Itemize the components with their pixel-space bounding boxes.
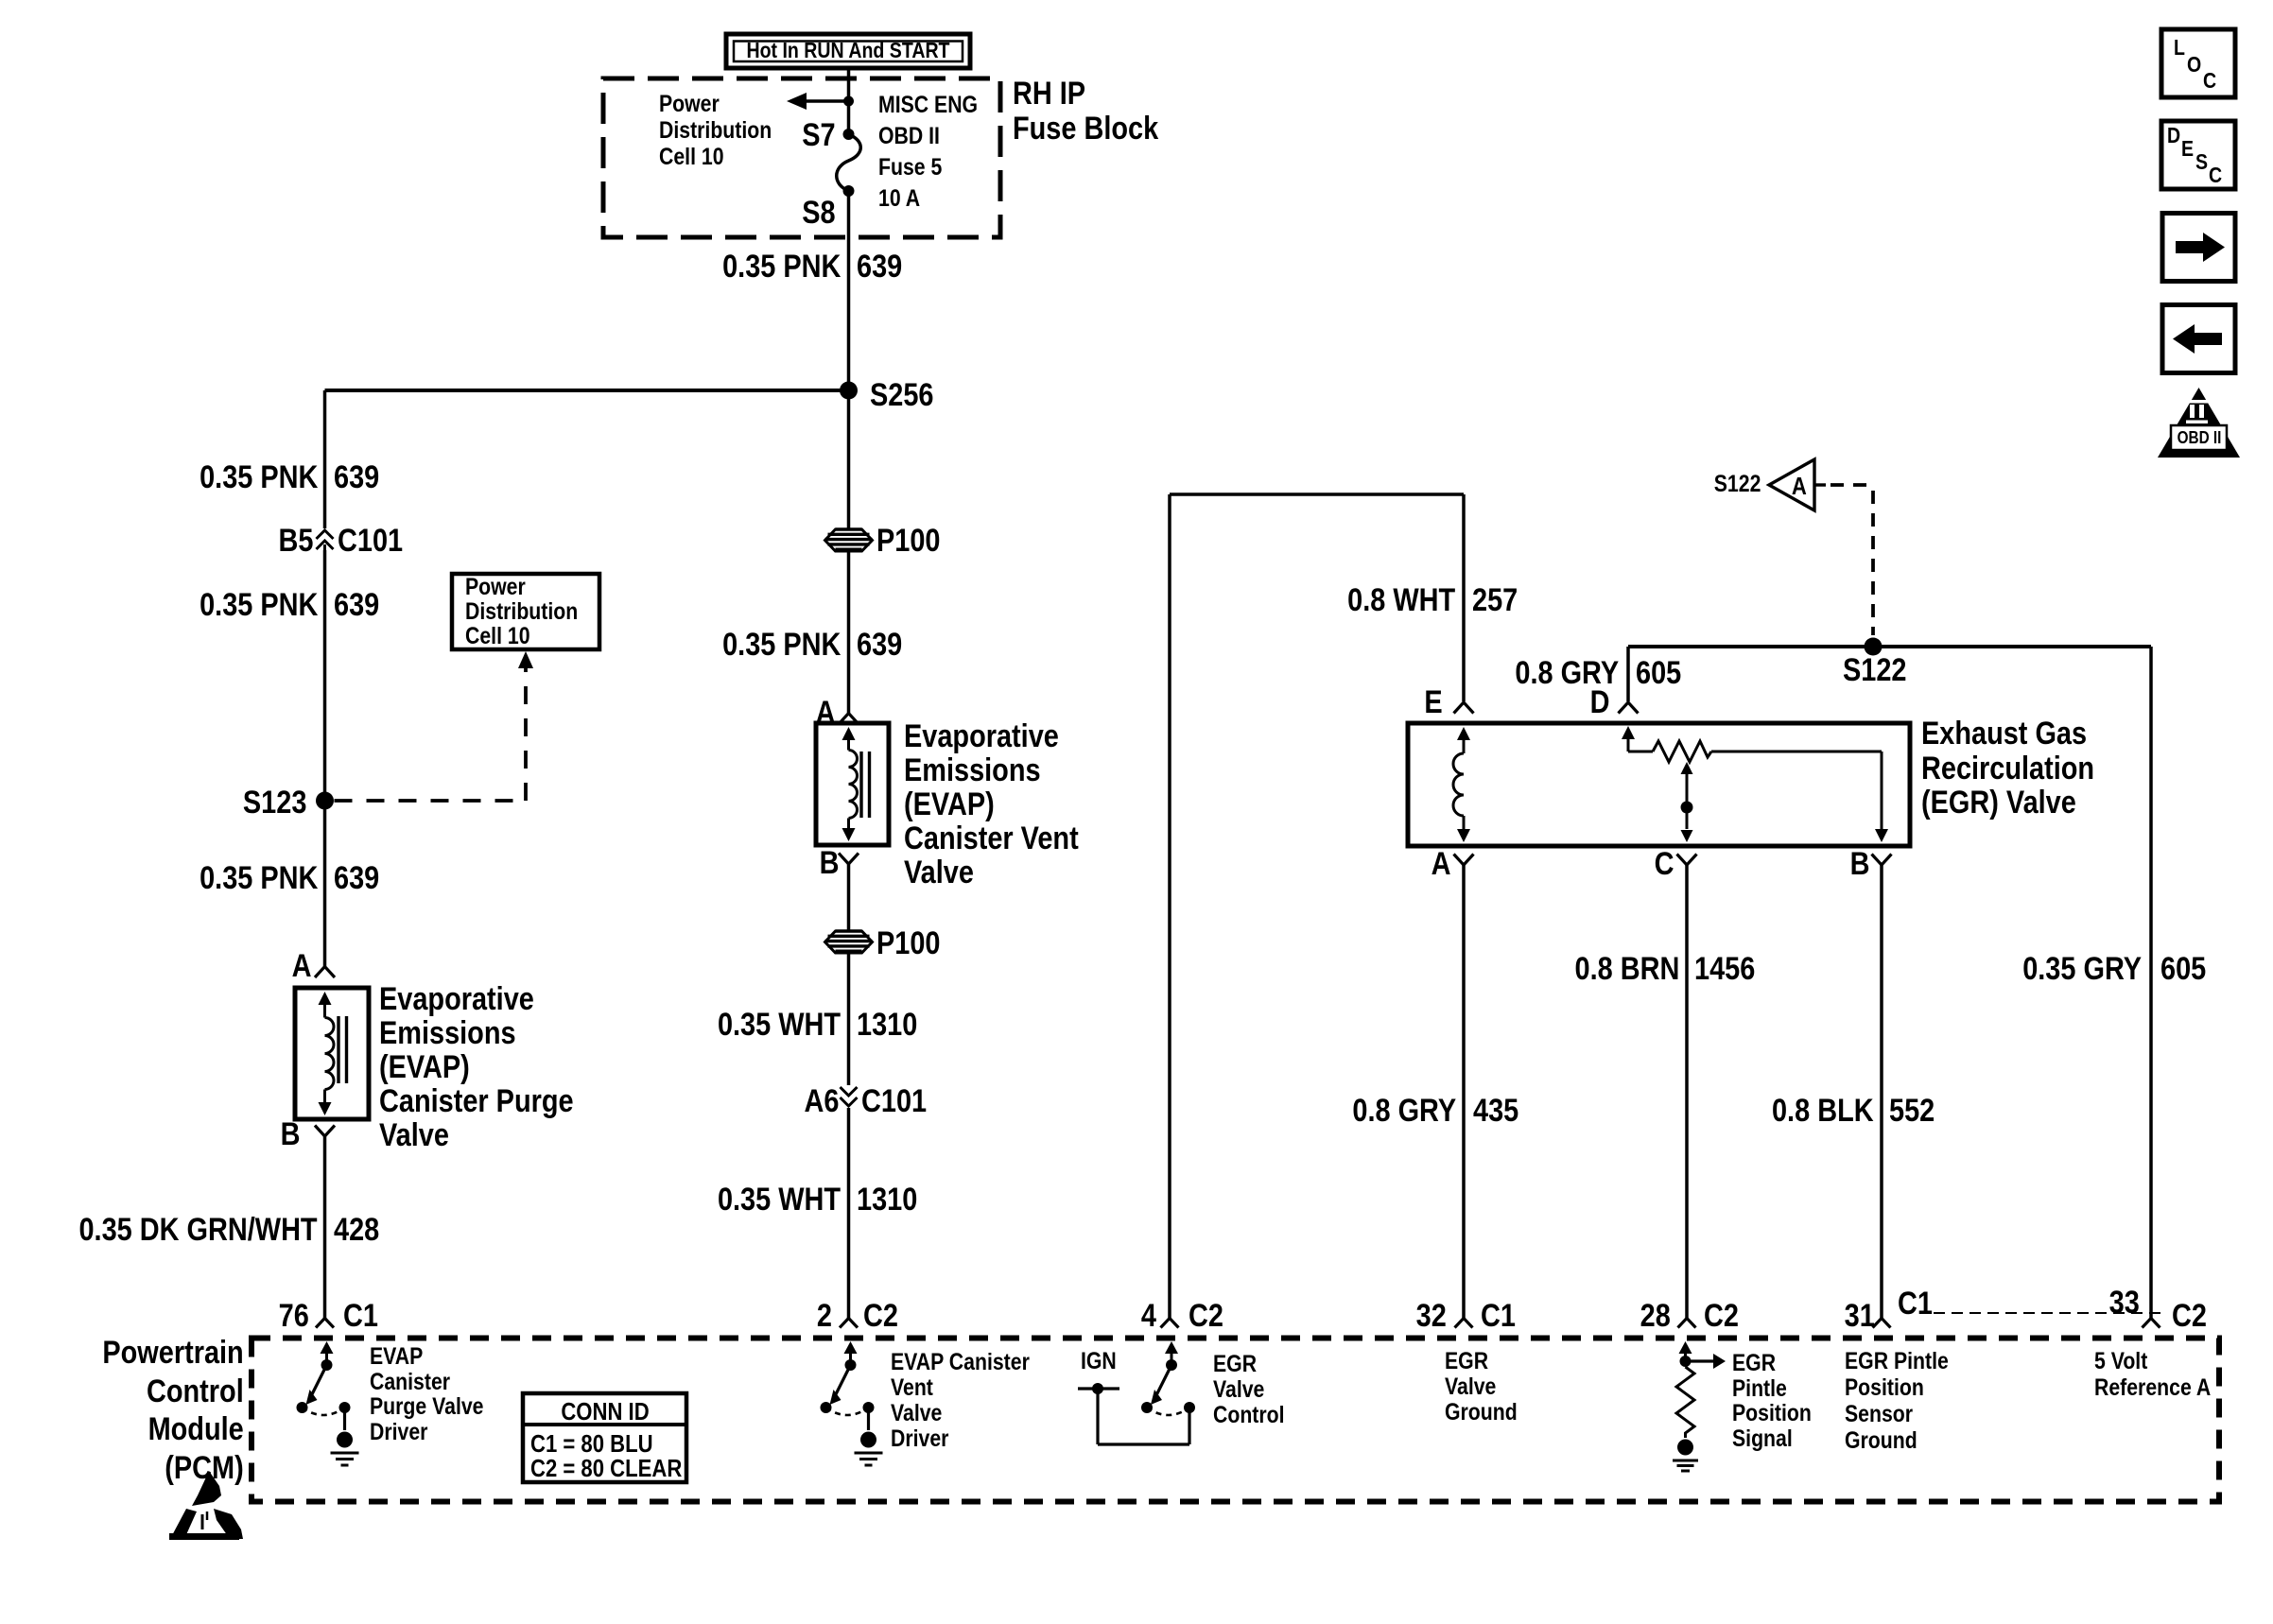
label C EGR bbox=[1655, 847, 1674, 881]
wire S256 to left branch bbox=[325, 389, 849, 392]
label C (LOC) bbox=[2203, 69, 2216, 92]
arrow to Power Distribution Cell 10 bbox=[787, 93, 854, 110]
EVAP canister purge valve driver bbox=[297, 1341, 354, 1448]
pin B purge valve bbox=[315, 1126, 335, 1137]
label D bbox=[1590, 685, 1610, 719]
label EGR Valve Control bbox=[1213, 1352, 1285, 1428]
label EGR Valve Ground bbox=[1445, 1349, 1518, 1425]
pin A vent valve bbox=[839, 714, 859, 725]
label 639 (2) bbox=[334, 460, 379, 494]
pin 2 C2 chevron bbox=[840, 1319, 858, 1328]
label A vent bbox=[816, 696, 836, 730]
OBD II triangle icon bbox=[2158, 388, 2240, 458]
pin E chevron bbox=[1454, 702, 1474, 714]
label 4 bbox=[1141, 1299, 1156, 1333]
label 0.8 WHT bbox=[1347, 583, 1455, 617]
label A EGR bbox=[1431, 847, 1451, 881]
label 1310 (2) bbox=[857, 1183, 917, 1217]
label 0.8 GRY (A) bbox=[1352, 1094, 1456, 1128]
wire 0.35 PNK 639 left lower bbox=[323, 801, 327, 966]
Powertrain Control Module dashed outline bbox=[252, 1339, 2219, 1502]
label RH IP Fuse Block bbox=[1013, 77, 1158, 147]
wire 0.35 PNK 639 fuse to S256 bbox=[847, 191, 851, 390]
label Evaporative Emissions EVAP Canister Purge Valve bbox=[379, 982, 574, 1152]
pintle signal ground bbox=[1673, 1460, 1698, 1471]
label C2 (pin 33) bbox=[2172, 1299, 2207, 1333]
label B vent bbox=[820, 846, 840, 880]
label D (DESC) bbox=[2167, 124, 2180, 147]
EGR valve solenoid coil bbox=[1453, 727, 1470, 842]
label S256 bbox=[870, 378, 933, 412]
wire 0.8 WHT 257 vertical bbox=[1168, 494, 1171, 1319]
label B EGR bbox=[1850, 847, 1870, 881]
DESC icon box bbox=[2161, 121, 2235, 189]
label O (LOC) bbox=[2187, 53, 2201, 76]
pin 76 C1 chevron bbox=[316, 1319, 334, 1328]
label 2 bbox=[817, 1299, 832, 1333]
label CONN ID bbox=[561, 1398, 649, 1425]
label C2 = 80 CLEAR bbox=[530, 1455, 682, 1481]
grommet P100 lower bbox=[825, 931, 873, 953]
label 552 bbox=[1889, 1094, 1935, 1128]
label 5 Volt Reference A bbox=[2094, 1348, 2211, 1401]
pin A EGR chevron bbox=[1454, 855, 1474, 866]
pintle signal pull resistor bbox=[1676, 1367, 1694, 1438]
vent driver ground bbox=[855, 1453, 883, 1465]
label 0.35 PNK (3) bbox=[200, 588, 318, 622]
label E bbox=[1425, 685, 1443, 719]
label OBD II bbox=[2177, 429, 2221, 447]
label 0.35 WHT (1) bbox=[718, 1008, 841, 1042]
wire 0.35 PNK 639 left upper bbox=[323, 390, 327, 528]
label 31 bbox=[1845, 1299, 1875, 1333]
label A6 bbox=[804, 1084, 839, 1118]
wire down to EGR pin E bbox=[1462, 494, 1466, 701]
wire 0.8 GRY 605 horizontal bbox=[1628, 645, 2151, 648]
pin 31 C1 chevron bbox=[1873, 1319, 1891, 1328]
label S122 pointer bbox=[1713, 472, 1761, 496]
pin B vent valve bbox=[839, 854, 859, 865]
purge driver ground bbox=[331, 1453, 359, 1465]
RH IP Fuse Block dashed outline bbox=[603, 78, 1000, 237]
label 639 (1) bbox=[857, 250, 902, 284]
EVAP canister purge valve solenoid coil bbox=[319, 992, 347, 1115]
label C2 (pin 4) bbox=[1189, 1299, 1223, 1333]
wire 0.8 WHT 257 horizontal bbox=[1170, 492, 1464, 496]
label S8 bbox=[803, 196, 836, 230]
label 0.35 WHT (2) bbox=[718, 1183, 841, 1217]
label 33 bbox=[2109, 1286, 2140, 1320]
wire 0.8 GRY 435 bbox=[1462, 865, 1466, 1319]
label P100 (2) bbox=[876, 926, 940, 960]
dashed pointer S123 to Power Distribution bbox=[335, 651, 534, 801]
label 0.35 DK GRN/WHT bbox=[79, 1213, 318, 1247]
wire 0.8 BRN 1456 bbox=[1685, 865, 1689, 1319]
label 0.8 BRN bbox=[1574, 952, 1679, 986]
label 0.35 PNK (2) bbox=[200, 460, 318, 494]
fuse MISC ENG OBD II Fuse 5 10A bbox=[837, 134, 861, 191]
label 428 bbox=[334, 1213, 379, 1247]
label Exhaust Gas Recirculation EGR Valve bbox=[1921, 717, 2094, 821]
label A purge bbox=[292, 949, 312, 983]
label 639 (3) bbox=[334, 588, 379, 622]
S122 off-page pointer triangle bbox=[1769, 459, 1826, 510]
label 28 bbox=[1640, 1299, 1671, 1333]
label B5 bbox=[278, 524, 313, 558]
label C2 (pin 28) bbox=[1704, 1299, 1739, 1333]
label 0.8 GRY (D) bbox=[1515, 656, 1619, 690]
label C1 (pin 31) bbox=[1898, 1287, 1933, 1321]
label EVAP Canister Vent Valve Driver bbox=[891, 1350, 1030, 1452]
label C (DESC) bbox=[2209, 164, 2222, 186]
connector C101 pin A6 (chevrons down) bbox=[841, 1087, 858, 1106]
wire 0.35 PNK 639 mid bbox=[847, 390, 851, 713]
label A in pointer bbox=[1792, 473, 1807, 499]
pin 4 C2 chevron bbox=[1161, 1319, 1179, 1328]
pin D chevron bbox=[1619, 702, 1639, 714]
pin A purge valve bbox=[315, 967, 335, 978]
label EGR Pintle Position Sensor Ground bbox=[1845, 1348, 1949, 1454]
label 605 (D) bbox=[1636, 656, 1681, 690]
ESD sensitive device symbol bbox=[169, 1471, 243, 1540]
label 32 bbox=[1416, 1299, 1447, 1333]
label 605 (right) bbox=[2160, 952, 2206, 986]
Power Distribution Cell 10 box bbox=[452, 574, 599, 649]
EVAP canister vent valve box bbox=[816, 723, 889, 845]
thin dashed pin row line bbox=[1934, 1312, 2167, 1314]
wire S122 to 5 volt reference bbox=[2149, 647, 2153, 1319]
label Powertrain Control Module PCM bbox=[103, 1334, 244, 1487]
label C1 (pin 76) bbox=[343, 1299, 378, 1333]
label 639 (4) bbox=[334, 861, 379, 895]
power feed box Hot In RUN And START bbox=[726, 34, 970, 68]
label L (LOC) bbox=[2174, 36, 2185, 59]
EVAP canister vent valve solenoid coil bbox=[842, 727, 870, 841]
label EGR Pintle Position Signal bbox=[1732, 1351, 1812, 1451]
label P100 (1) bbox=[876, 524, 940, 558]
splice S123 bbox=[316, 792, 334, 810]
wire 0.35 PNK 639 left mid bbox=[323, 550, 327, 801]
back arrow icon bbox=[2162, 305, 2235, 373]
pin 32 C1 chevron bbox=[1455, 1319, 1473, 1328]
label C1 (pin 32) bbox=[1481, 1299, 1516, 1333]
EVAP canister purge valve box bbox=[295, 988, 369, 1119]
wire 0.35 DK GRN/WHT 428 bbox=[323, 1136, 327, 1319]
forward arrow icon bbox=[2162, 214, 2235, 282]
splice S256 bbox=[840, 382, 858, 400]
EGR pintle potentiometer bbox=[1622, 726, 1888, 842]
label 0.35 PNK (5) bbox=[722, 628, 841, 662]
label Power Distribution Cell 10 (fuse block) bbox=[659, 91, 772, 170]
pin B EGR chevron bbox=[1872, 855, 1892, 866]
EGR pintle position signal input bbox=[1679, 1341, 1726, 1369]
EGR pintle wiper bbox=[1681, 762, 1693, 842]
splice S7 bbox=[843, 129, 855, 140]
label C101 (2) bbox=[861, 1084, 927, 1118]
label 0.35 GRY bbox=[2022, 952, 2142, 986]
label Power Distribution Cell 10 (ref box) bbox=[465, 575, 578, 648]
dashed wire pointer to S122 bbox=[1831, 485, 1873, 635]
label S122 splice bbox=[1843, 653, 1906, 687]
label 0.8 BLK bbox=[1772, 1094, 1874, 1128]
pin 33 C2 chevron bbox=[2143, 1319, 2160, 1328]
splice S122 bbox=[1865, 638, 1883, 656]
label S (DESC) bbox=[2195, 150, 2208, 173]
label Evaporative Emissions EVAP Canister Vent Valve bbox=[904, 719, 1079, 890]
label 1456 bbox=[1694, 952, 1755, 986]
label 0.35 PNK (1) bbox=[722, 250, 841, 284]
label C101 (1) bbox=[338, 524, 403, 558]
EGR valve box bbox=[1408, 723, 1910, 846]
pin C EGR chevron bbox=[1677, 855, 1697, 866]
label EVAP Canister Purge Valve Driver bbox=[370, 1344, 483, 1444]
label 76 bbox=[278, 1299, 308, 1333]
wire D pin stub bbox=[1626, 647, 1630, 701]
label C1 = 80 BLU bbox=[530, 1430, 653, 1457]
label S123 bbox=[243, 786, 306, 820]
EGR valve control driver bbox=[1141, 1341, 1195, 1444]
connector C101 pin B5 bbox=[317, 530, 334, 550]
pin 28 C2 chevron bbox=[1678, 1319, 1696, 1328]
label B purge bbox=[281, 1117, 301, 1151]
label 257 bbox=[1472, 583, 1518, 617]
label E (DESC) bbox=[2181, 137, 2194, 160]
label 639 (5) bbox=[857, 628, 902, 662]
grommet P100 upper bbox=[825, 529, 873, 551]
wire 0.35 WHT 1310 lower bbox=[847, 1108, 851, 1319]
splice S8 bbox=[843, 185, 855, 197]
CONN ID legend box bbox=[523, 1393, 686, 1482]
label 1310 (1) bbox=[857, 1008, 917, 1042]
label Hot In RUN And START bbox=[746, 39, 949, 61]
EVAP canister vent valve driver bbox=[821, 1341, 877, 1448]
label S7 bbox=[803, 118, 836, 152]
label C2 (pin 2) bbox=[863, 1299, 898, 1333]
label 435 bbox=[1473, 1094, 1518, 1128]
wire 0.35 WHT 1310 upper bbox=[847, 864, 851, 1085]
LOC icon box bbox=[2161, 29, 2235, 97]
label IGN bbox=[1081, 1349, 1117, 1373]
wire feed into fuse bbox=[847, 70, 851, 134]
label 0.35 PNK (4) bbox=[200, 861, 318, 895]
IGN supply tap bbox=[1078, 1383, 1189, 1444]
label MISC ENG OBD II Fuse 5 10 A bbox=[878, 90, 978, 215]
pintle signal ball bbox=[1677, 1440, 1693, 1456]
wire 0.8 BLK 552 bbox=[1880, 865, 1883, 1319]
